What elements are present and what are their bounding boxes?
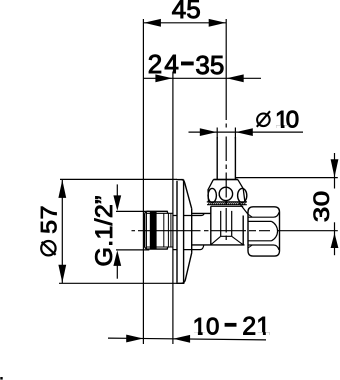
valve body right edge xyxy=(242,216,244,245)
flange right face xyxy=(191,209,193,253)
svg-text:45: 45 xyxy=(172,0,201,24)
flange disc (dia 57) left face xyxy=(176,181,178,283)
nut facet line bottom inner xyxy=(248,240,272,242)
node: horizontal centerline / inlet axis xyxy=(132,230,338,232)
wire: wall line 1 (min wall position, vertical) xyxy=(142,19,144,344)
bonnet knurl band lines xyxy=(207,202,247,205)
hub shoulder lines behind flange xyxy=(173,214,204,250)
bonnet step line / body top xyxy=(211,205,243,207)
flange disc second face line xyxy=(183,180,185,284)
svg-text:10: 10 xyxy=(193,313,220,340)
dimension dia57: vertical line, arrows, extension lines xyxy=(58,179,177,283)
handle center grip circle xyxy=(219,187,232,200)
dash of 10-21 xyxy=(225,323,237,327)
flange bottom edge xyxy=(176,282,184,284)
dash of 24-35 xyxy=(181,62,194,66)
value label dia 57 (rotated) xyxy=(41,241,55,255)
thread crest lines right xyxy=(164,213,171,247)
outlet pipe dia 10 right edge xyxy=(234,137,236,180)
node: vertical centerline / outlet axis xyxy=(225,19,227,120)
valve body left edge xyxy=(210,206,212,245)
bonnet knurl hatching xyxy=(208,202,245,204)
svg-text:21: 21 xyxy=(242,312,270,340)
dimension 24-35: line with outside arrows xyxy=(143,74,261,82)
dimension dia10: line, ticks, outside arrows xyxy=(189,128,304,139)
dimension G.1/2: extension lines, outside arrows xyxy=(113,184,149,278)
flange cone top diagonal xyxy=(182,180,192,209)
neck top outer line xyxy=(191,212,210,214)
nut middle facet right bulge arc xyxy=(272,221,278,240)
speck bottom left xyxy=(0,377,2,380)
slot diagonals to body corners xyxy=(211,236,243,244)
handle right grip ellipse xyxy=(238,188,247,202)
dimension 10-21: line with outside arrows xyxy=(108,335,266,343)
thread black band xyxy=(150,211,157,249)
outlet pipe dia 10 left edge xyxy=(216,137,218,180)
threaded tail pipe root lines xyxy=(146,213,173,247)
svg-text:0: 0 xyxy=(286,106,299,133)
compression nut outline xyxy=(248,207,280,256)
svg-text:57: 57 xyxy=(37,205,63,234)
svg-text:35: 35 xyxy=(195,50,224,80)
threaded tail pipe end face line xyxy=(145,211,147,249)
nut facet line top with corner sweep xyxy=(248,212,279,217)
dimension 45: line and arrows xyxy=(143,19,226,27)
stem slot U shape inside body xyxy=(221,211,232,236)
nut facet line bottom with corner sweep xyxy=(248,245,279,250)
nut left chamfer diagonal top xyxy=(248,214,252,217)
threaded tail pipe outline with end steps xyxy=(145,211,168,249)
wire: wall line 2 (max wall position, vertical) xyxy=(172,72,174,345)
svg-text:G.1/2”: G.1/2” xyxy=(92,195,118,266)
nut left chamfer diagonal bottom xyxy=(248,245,252,248)
handle left grip ellipse xyxy=(208,188,216,202)
svg-text:24: 24 xyxy=(148,49,181,79)
flange cone bottom diagonal xyxy=(182,253,192,283)
neck bottom line joining body bottom xyxy=(191,244,244,246)
value label dia 10 (diameter glyph drawn) xyxy=(257,111,270,127)
dimension 30: extension line, vertical line, outside arrows xyxy=(235,153,338,255)
handle top edge emphasised xyxy=(214,179,238,181)
flange top edge xyxy=(176,179,183,181)
handle knob trapezoid xyxy=(208,180,245,202)
chamfer diagonal body to nut xyxy=(239,203,248,215)
svg-text:30: 30 xyxy=(309,191,334,223)
nut facet line top inner xyxy=(248,220,272,222)
white mask: foot of 1 in 10-21 xyxy=(193,125,288,335)
